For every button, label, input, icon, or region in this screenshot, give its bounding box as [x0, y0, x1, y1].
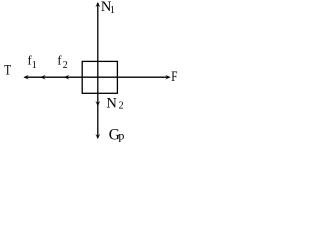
svg-text:p: p [118, 129, 124, 143]
svg-text:N: N [106, 96, 117, 112]
arrow N1 head (up) [96, 2, 100, 7]
arrow Gp head (down) [96, 134, 100, 139]
arrow f2 head (left) [64, 75, 69, 79]
svg-text:2: 2 [119, 100, 124, 111]
arrow T head (left) [24, 75, 29, 79]
svg-text:F: F [171, 69, 177, 85]
arrow f1 head (left) [41, 75, 46, 79]
svg-text:2: 2 [63, 60, 68, 71]
arrow F head (right) [166, 75, 171, 79]
svg-text:1: 1 [110, 5, 115, 16]
box (block) [82, 61, 117, 93]
arrow N2 head (down) [96, 101, 100, 106]
svg-text:1: 1 [32, 60, 37, 71]
wire vertical axis (N1 to Gp) [97, 3, 99, 137]
svg-text:T: T [4, 63, 11, 79]
wire horizontal axis (T to F) [25, 76, 170, 78]
